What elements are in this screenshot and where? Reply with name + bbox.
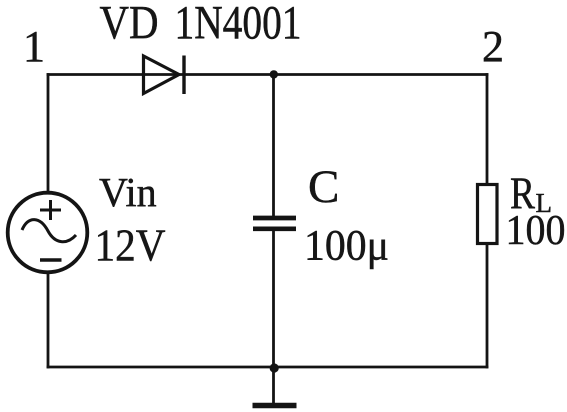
svg-text:100μ: 100μ (304, 223, 389, 270)
svg-text:100: 100 (506, 208, 566, 254)
svg-text:2: 2 (482, 22, 504, 71)
svg-text:1: 1 (23, 22, 45, 71)
svg-text:VD: VD (100, 0, 159, 50)
svg-text:12V: 12V (95, 220, 166, 271)
svg-text:1N4001: 1N4001 (175, 0, 302, 50)
svg-text:Vin: Vin (99, 169, 157, 215)
svg-text:C: C (308, 161, 339, 213)
